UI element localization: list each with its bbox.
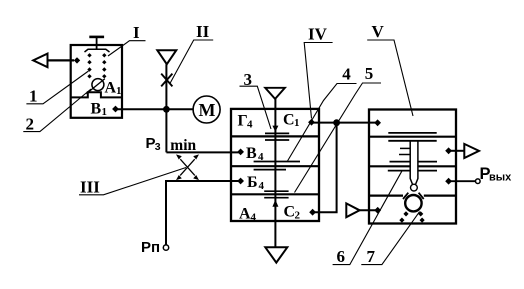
- svg-text:В: В: [91, 101, 102, 118]
- down arrowhead on stem: [272, 126, 278, 132]
- divider 1 of block V: [369, 136, 456, 138]
- leader label III: [79, 168, 186, 195]
- wire to right triangle: [449, 150, 465, 152]
- nozzle tube: [410, 141, 418, 184]
- svg-text:А: А: [105, 80, 117, 97]
- membrane bars G/V: [265, 132, 289, 134]
- svg-text:3: 3: [244, 70, 253, 89]
- notched divider inside block I: [71, 92, 122, 97]
- node B1 diamond: [112, 106, 119, 113]
- terminal Pp circle: [163, 245, 168, 250]
- block I: filter-regulator unit body: [71, 45, 122, 118]
- leader label 6: [333, 170, 403, 264]
- node diamond on exhaust wire: [74, 57, 80, 63]
- svg-text:1: 1: [294, 117, 300, 129]
- wire: B1 to gauge M: [116, 108, 193, 110]
- svg-text:V: V: [372, 22, 385, 41]
- svg-text:Рп: Рп: [141, 239, 160, 256]
- svg-text:1: 1: [29, 87, 38, 106]
- svg-text:5: 5: [365, 64, 374, 83]
- svg-text:2: 2: [295, 210, 301, 222]
- wire to Pvyh terminal: [449, 180, 476, 182]
- baffle teeth: [400, 147, 410, 149]
- svg-text:М: М: [199, 100, 216, 120]
- port C2 diamond: [309, 209, 316, 216]
- svg-text:7: 7: [367, 247, 376, 266]
- valve seat lines: [403, 193, 424, 199]
- port diamond top-left of block V: [374, 119, 381, 126]
- svg-text:IV: IV: [308, 25, 328, 44]
- stem of block IV: [274, 99, 276, 247]
- inner hat bar: [85, 49, 110, 52]
- filter diamonds column right: [102, 53, 106, 78]
- leader label 7: [361, 212, 419, 265]
- line under divider 1: [388, 140, 436, 142]
- port V4 diamond: [237, 149, 244, 156]
- svg-text:4: 4: [258, 151, 264, 163]
- wire: P3 line to port V4: [166, 151, 240, 153]
- divider 3 of block V (gap at ball): [369, 195, 456, 197]
- block IV: relay body: [231, 109, 319, 221]
- membrane line top chamber: [388, 132, 436, 134]
- divider B/A: [231, 193, 319, 195]
- svg-text:4: 4: [251, 212, 257, 224]
- svg-text:Б: Б: [247, 174, 258, 191]
- svg-text:II: II: [196, 22, 210, 41]
- svg-text:С: С: [284, 204, 296, 221]
- line under divider 2 (split by tube): [388, 170, 437, 172]
- svg-text:вых: вых: [489, 172, 512, 184]
- svg-text:1: 1: [116, 85, 122, 97]
- leader label 5: [295, 83, 382, 193]
- output triangle right: [464, 144, 479, 158]
- terminal Pvyh circle: [476, 179, 481, 184]
- output port 2 diamond: [445, 178, 452, 185]
- plunger T on block I: [89, 36, 104, 39]
- svg-text:4: 4: [259, 180, 265, 192]
- leader label 2: [23, 89, 91, 132]
- up arrowhead on stem: [272, 200, 278, 207]
- svg-text:А: А: [239, 206, 251, 223]
- filter diamonds column left: [87, 53, 91, 78]
- svg-text:6: 6: [337, 247, 346, 266]
- wire: riser of valve II: [165, 64, 167, 152]
- wire: left exhaust from block I: [48, 59, 75, 61]
- ball valve: [405, 195, 421, 211]
- svg-text:4: 4: [247, 119, 253, 131]
- divider V/B: [231, 165, 319, 167]
- wire: supply into block V: [360, 209, 378, 211]
- leader label II: [170, 40, 213, 83]
- leader label V: [367, 40, 413, 116]
- svg-text:В: В: [246, 145, 257, 162]
- spring diamonds around ball: [399, 211, 424, 222]
- nozzle ball small circle: [411, 184, 418, 191]
- exhaust triangle left: [33, 54, 47, 68]
- wire: junction down to C2: [312, 123, 337, 213]
- pressure gauge M: [193, 96, 220, 123]
- block V: amplifier body: [369, 110, 456, 224]
- port B4 diamond: [237, 178, 244, 185]
- leader label IV: [304, 43, 332, 119]
- wire: Pp riser and line to port B4: [166, 181, 241, 245]
- crossing arrows symbol III: [180, 159, 195, 175]
- svg-text:С: С: [283, 112, 295, 129]
- membrane bars V/B: [254, 161, 300, 163]
- top atmosphere triangle of IV: [265, 88, 285, 99]
- supply triangle bottom-left: [346, 203, 359, 217]
- junction node on C1 wire: [333, 119, 340, 126]
- wire: C1 to block V: [312, 122, 378, 124]
- svg-text:2: 2: [26, 115, 35, 134]
- divider 2 of block V (gap at tube): [369, 165, 456, 167]
- port C1 diamond: [308, 119, 315, 126]
- svg-text:4: 4: [342, 65, 351, 84]
- bottom atmosphere triangle of IV: [265, 247, 287, 262]
- membrane line mid (split by tube): [390, 161, 438, 163]
- leader label 4: [288, 84, 357, 162]
- svg-text:min: min: [170, 137, 196, 154]
- membrane bars B/A: [264, 190, 288, 192]
- output port 1 diamond: [445, 147, 452, 154]
- leader label 1: [26, 71, 88, 104]
- svg-text:I: I: [133, 23, 140, 42]
- svg-text:1: 1: [102, 106, 108, 118]
- supply port diamond: [374, 207, 381, 214]
- svg-text:3: 3: [155, 141, 161, 153]
- valve II cross: [161, 74, 172, 87]
- divider G/V: [231, 135, 319, 137]
- throttle circle with slash: [92, 79, 104, 91]
- svg-text:III: III: [80, 178, 100, 197]
- leader label I: [108, 41, 146, 56]
- junction node: [163, 106, 170, 113]
- leader label 3: [240, 86, 272, 129]
- atmosphere triangle of valve II: [157, 50, 176, 64]
